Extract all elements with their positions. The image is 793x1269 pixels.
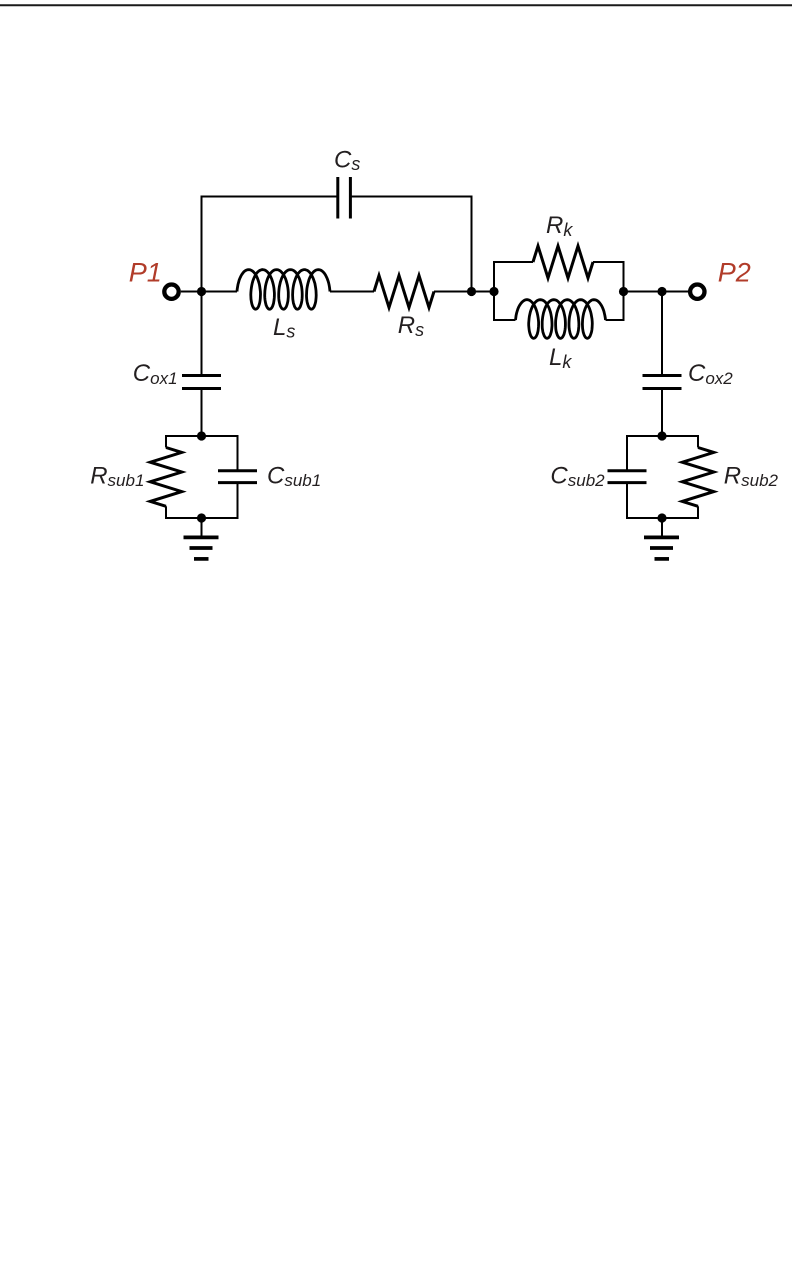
label Rs (398, 312, 424, 340)
svg-text:Cox2: Cox2 (688, 360, 733, 388)
label Cs (334, 146, 360, 174)
wire Cs branch top right (350, 196, 472, 198)
node I junction dot (sub2 bottom) (657, 513, 666, 522)
node B junction dot (Cs drop) (467, 287, 476, 296)
page top rule (0, 4, 792, 6)
wire Cs branch right drop (471, 196, 473, 292)
wire sub1 box bottom (166, 483, 238, 518)
wire sub1 box top (166, 436, 238, 470)
wire Cox2 to sub2 box (661, 389, 663, 438)
wire Rk top branch right (593, 261, 625, 263)
svg-text:P1: P1 (129, 258, 162, 288)
capacitor Cs (338, 177, 351, 219)
label P2 (718, 258, 751, 288)
inductor Ls (237, 270, 330, 310)
wire node A up to Cs branch (201, 196, 203, 292)
label P1 (129, 258, 162, 288)
inductor Lk (516, 300, 606, 339)
svg-text:Csub1: Csub1 (267, 462, 321, 490)
label Rsub1 (90, 462, 144, 490)
capacitor Cox2 (643, 376, 682, 389)
wire Cs branch top left (201, 196, 338, 198)
wire node D to P2 (624, 291, 689, 293)
node H junction dot (sub2 top) (657, 431, 666, 440)
capacitor Csub1 (218, 471, 257, 483)
label Csub1 (267, 462, 321, 490)
label Cox1 (133, 360, 178, 388)
node C junction dot (Rk/Lk left) (489, 287, 498, 296)
label Csub2 (550, 462, 605, 490)
wire Ls to Rs (330, 291, 374, 293)
svg-text:Lk: Lk (549, 344, 572, 372)
resistor Rs (374, 276, 434, 308)
label Lk (549, 344, 572, 372)
capacitor Csub2 (608, 471, 647, 483)
wire node A down to Cox1 (201, 292, 203, 377)
wire node E down to Cox2 (661, 292, 663, 377)
label Ls (273, 314, 295, 342)
svg-text:P2: P2 (718, 258, 751, 288)
label Rsub2 (724, 462, 779, 490)
node D junction dot (Rk/Lk right) (619, 287, 628, 296)
node G junction dot (sub1 bottom) (197, 513, 206, 522)
node A junction dot (197, 287, 206, 296)
svg-text:Rs: Rs (398, 312, 424, 340)
resistor Rsub2 (682, 448, 714, 507)
terminal P1 (164, 285, 178, 299)
svg-text:Csub2: Csub2 (550, 462, 605, 490)
ground 2 (644, 518, 679, 559)
svg-text:Rsub2: Rsub2 (724, 462, 779, 490)
terminal P2 (690, 285, 704, 299)
label Cox2 (688, 360, 733, 388)
wire Lk bottom branch right (606, 319, 625, 321)
wire Cox1 to sub1 box (201, 389, 203, 438)
resistor Rk (533, 246, 593, 278)
svg-text:Rk: Rk (546, 212, 573, 240)
wire Rk top branch left (493, 261, 533, 263)
svg-text:Cox1: Cox1 (133, 360, 178, 388)
svg-text:Ls: Ls (273, 314, 295, 342)
wire Lk bottom branch left (493, 319, 516, 321)
resistor Rsub1 (150, 448, 182, 507)
node E junction dot (Cox2 tap) (657, 287, 666, 296)
wire P1 to node A (181, 291, 237, 293)
wire sub2 box bottom (627, 483, 698, 518)
svg-text:Cs: Cs (334, 146, 360, 174)
capacitor Cox1 (182, 376, 221, 389)
label Rk (546, 212, 573, 240)
node F junction dot (sub1 top) (197, 431, 206, 440)
wire Rk/Lk right edge (623, 262, 625, 320)
svg-text:Rsub1: Rsub1 (90, 462, 144, 490)
ground 1 (184, 518, 219, 559)
wire Rk/Lk left edge (493, 262, 495, 320)
wire Rs to node B (434, 291, 494, 293)
wire sub2 box top (627, 436, 698, 470)
